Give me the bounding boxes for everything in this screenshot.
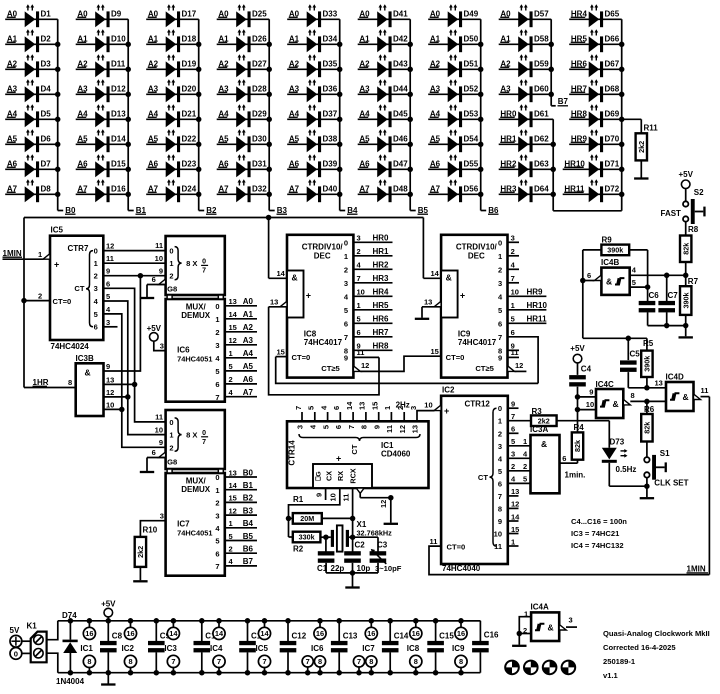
- svg-text:R9: R9: [602, 236, 613, 245]
- svg-text:2k2: 2k2: [538, 416, 550, 425]
- svg-text:&: &: [613, 399, 619, 409]
- svg-text:D51: D51: [464, 60, 479, 69]
- LED D20 with net A3: [146, 79, 199, 102]
- svg-text:B1: B1: [243, 481, 254, 490]
- LED D5 with net A4: [5, 104, 58, 127]
- LED D51 with net A2: [428, 54, 481, 77]
- LED D23 with net A6: [146, 154, 199, 177]
- svg-text:2k2: 2k2: [136, 546, 145, 558]
- svg-text:2: 2: [523, 462, 527, 471]
- svg-text:9: 9: [511, 400, 515, 409]
- LED D34 with net A1: [287, 29, 340, 52]
- svg-text:5: 5: [523, 474, 527, 483]
- svg-text:D56: D56: [464, 185, 479, 194]
- svg-text:D16: D16: [111, 185, 126, 194]
- svg-text:+5V: +5V: [678, 170, 693, 179]
- svg-text:CTRDIV10/: CTRDIV10/: [456, 242, 498, 251]
- svg-text:CT=0: CT=0: [446, 353, 465, 362]
- svg-text:HR7: HR7: [373, 328, 390, 337]
- IC5 out0 wire to IC6 pin11: [103, 250, 165, 252]
- svg-text:B4: B4: [243, 519, 254, 528]
- svg-text:1: 1: [357, 301, 361, 310]
- svg-text:Corrected 16-4-2025: Corrected 16-4-2025: [603, 643, 676, 652]
- LED D16 with net A7: [76, 179, 129, 202]
- cathode bus column 5 (net B5): [407, 19, 428, 215]
- svg-text:D33: D33: [323, 10, 338, 19]
- svg-text:2: 2: [229, 545, 233, 554]
- svg-text:8: 8: [459, 657, 463, 666]
- svg-text:9: 9: [106, 267, 110, 276]
- LED D6 with net A5: [5, 129, 58, 152]
- LED D49 with net A0: [428, 4, 481, 27]
- wire R9 right down to pin5 node: [629, 250, 647, 287]
- registration blob 3: [542, 660, 558, 676]
- svg-text:HR10: HR10: [527, 301, 548, 310]
- svg-text:+: +: [306, 290, 311, 300]
- svg-text:13: 13: [424, 297, 432, 306]
- capacitor C12 100n: [280, 618, 307, 675]
- svg-text:5: 5: [307, 406, 316, 410]
- svg-text:DEC: DEC: [468, 251, 485, 260]
- svg-text:1: 1: [523, 437, 527, 446]
- gate IC4A 74HC132 unused: [517, 603, 577, 645]
- LED D54 with net A5: [428, 129, 481, 152]
- svg-text:+: +: [54, 259, 59, 269]
- svg-text:DEMUX: DEMUX: [181, 311, 211, 320]
- C6/C7 bottom rail to ground node: [648, 323, 689, 329]
- capacitor C15 100n: [427, 618, 454, 675]
- net label 1min: [562, 454, 585, 480]
- svg-text:1MIN: 1MIN: [3, 249, 22, 258]
- svg-text:7: 7: [306, 657, 310, 666]
- svg-text:A6: A6: [243, 375, 254, 384]
- svg-text:2: 2: [511, 462, 515, 471]
- LED D15 with net A6: [76, 154, 129, 177]
- svg-text:15: 15: [229, 323, 237, 332]
- svg-text:2: 2: [169, 272, 173, 281]
- svg-text:16: 16: [367, 629, 375, 638]
- registration blob 4: [561, 660, 577, 676]
- svg-text:D10: D10: [111, 35, 126, 44]
- svg-text:+5V: +5V: [570, 344, 585, 353]
- svg-text:10: 10: [424, 400, 432, 409]
- LED D14 with net A5: [76, 129, 129, 152]
- svg-text:16: 16: [457, 629, 465, 638]
- svg-text:2: 2: [94, 272, 98, 281]
- svg-text:2: 2: [511, 247, 515, 256]
- svg-text:B3: B3: [277, 206, 288, 215]
- LED D45 with net A4: [358, 104, 411, 127]
- svg-text:2k2: 2k2: [637, 141, 646, 153]
- counter IC5 74HC4024: [50, 225, 103, 350]
- svg-text:5: 5: [632, 278, 636, 287]
- svg-text:+5V: +5V: [147, 324, 162, 333]
- ground at IC4A inputs: [512, 645, 526, 647]
- svg-text:8: 8: [631, 391, 635, 400]
- svg-text:74HC4017: 74HC4017: [304, 338, 343, 347]
- svg-text:3: 3: [215, 341, 219, 350]
- svg-text:11: 11: [511, 348, 519, 357]
- svg-text:D28: D28: [252, 85, 267, 94]
- cathode bus column 7 upper half (net B7): [548, 19, 568, 106]
- svg-text:1N4004: 1N4004: [56, 677, 85, 686]
- svg-text:3: 3: [94, 284, 98, 293]
- LED D69 with net HR8: [569, 104, 622, 127]
- svg-text:7: 7: [215, 562, 219, 571]
- svg-text:IC2: IC2: [442, 385, 455, 394]
- LED D37 with net A4: [287, 104, 340, 127]
- resistor R4 82k: [560, 423, 585, 463]
- LED D63 with net HR2: [499, 154, 554, 177]
- counter IC2 74HC4040: [434, 385, 508, 573]
- svg-text:1min.: 1min.: [565, 471, 586, 480]
- oscillator ground rail: [326, 570, 378, 586]
- svg-text:7: 7: [294, 406, 303, 410]
- net label 1MIN at IC5 pin1: [3, 249, 51, 259]
- svg-text:22p: 22p: [331, 564, 345, 573]
- svg-text:1: 1: [511, 537, 515, 546]
- svg-text:0: 0: [202, 259, 206, 266]
- svg-text:RCX: RCX: [349, 468, 358, 483]
- IC9 pin13 to ground: [422, 297, 441, 317]
- resistor R1 20M: [289, 495, 353, 524]
- svg-text:FAST: FAST: [661, 209, 682, 218]
- capacitor C5: [620, 338, 647, 388]
- svg-text:15: 15: [511, 525, 519, 534]
- LED D25 with net A0: [217, 4, 270, 27]
- IC8 pin13 wire to out9: [269, 297, 379, 394]
- svg-text:D23: D23: [182, 160, 197, 169]
- svg-text:D32: D32: [252, 185, 267, 194]
- svg-text:IC4A: IC4A: [531, 603, 549, 612]
- svg-text:D41: D41: [393, 10, 408, 19]
- ground at IC1 pin12: [384, 523, 398, 525]
- svg-text:&: &: [541, 439, 547, 449]
- LED D2 with net A1: [5, 29, 58, 52]
- svg-text:DEMUX: DEMUX: [181, 485, 211, 494]
- svg-text:HR8: HR8: [373, 342, 390, 351]
- svg-text:3: 3: [160, 341, 164, 350]
- IC8 pin14 clock from 1HR line: [269, 218, 287, 279]
- svg-text:IC3: IC3: [164, 644, 177, 653]
- svg-text:CT=0: CT=0: [292, 353, 311, 362]
- svg-text:D44: D44: [393, 85, 408, 94]
- svg-text:74HC4051: 74HC4051: [177, 528, 212, 537]
- svg-text:5: 5: [344, 306, 348, 315]
- IC9 CT>=5 pin12 stub: [515, 361, 527, 371]
- svg-text:CTR12: CTR12: [465, 399, 491, 408]
- svg-text:7: 7: [202, 439, 206, 446]
- svg-text:1: 1: [383, 406, 392, 410]
- svg-text:3: 3: [296, 425, 305, 429]
- svg-text:6: 6: [511, 328, 515, 337]
- LED D18 with net A1: [146, 29, 199, 52]
- LED D42 with net A1: [358, 29, 411, 52]
- svg-text:12: 12: [361, 361, 369, 370]
- svg-text:D43: D43: [393, 60, 408, 69]
- svg-text:5: 5: [215, 537, 219, 546]
- svg-text:8: 8: [498, 504, 502, 513]
- svg-text:5: 5: [106, 292, 110, 301]
- svg-text:6: 6: [511, 425, 515, 434]
- svg-text:14: 14: [345, 401, 354, 410]
- power pins IC2: [122, 618, 137, 675]
- svg-text:C13: C13: [343, 632, 358, 641]
- svg-text:8: 8: [414, 657, 418, 666]
- power pins IC9: [452, 618, 467, 675]
- svg-text:D35: D35: [323, 60, 338, 69]
- svg-text:CTR7: CTR7: [68, 244, 89, 253]
- svg-text:C15: C15: [439, 632, 454, 641]
- LED D43 with net A2: [358, 54, 411, 77]
- 2Hz wire IC1 pin3 to IC2 pin10: [396, 400, 435, 421]
- svg-text:D73: D73: [610, 438, 625, 447]
- svg-text:D1: D1: [41, 10, 52, 19]
- resistor R10 2k2: [135, 526, 158, 581]
- svg-text:IC5: IC5: [256, 644, 269, 653]
- svg-text:6: 6: [106, 279, 110, 288]
- diode D74 1N4004: [56, 611, 85, 686]
- svg-text:13: 13: [270, 297, 278, 306]
- IC9 outputs: [498, 234, 547, 384]
- svg-text:D7: D7: [41, 160, 52, 169]
- svg-text:82k: 82k: [643, 422, 652, 434]
- svg-text:D50: D50: [464, 35, 479, 44]
- ground under C8: [101, 683, 115, 685]
- svg-text:2: 2: [498, 266, 502, 275]
- svg-text:2: 2: [38, 291, 42, 300]
- svg-text:D60: D60: [534, 85, 549, 94]
- IC4B pin5 wire: [630, 278, 651, 290]
- resistor R6 82k: [641, 401, 655, 457]
- cathode bus column 2 (net B2): [196, 19, 217, 215]
- svg-text:v1.1: v1.1: [603, 671, 619, 680]
- svg-text:0: 0: [94, 247, 98, 256]
- svg-text:CTR14: CTR14: [288, 440, 297, 466]
- svg-text:D25: D25: [252, 10, 267, 19]
- svg-text:0: 0: [169, 418, 173, 427]
- LED D57 with net A0: [499, 4, 552, 27]
- svg-text:D67: D67: [605, 60, 620, 69]
- svg-text:IC4B: IC4B: [601, 258, 619, 267]
- svg-text:7: 7: [202, 268, 206, 275]
- svg-text:15: 15: [229, 494, 237, 503]
- svg-text:3: 3: [160, 512, 164, 521]
- capacitor C16 100n at rail end: [436, 621, 499, 673]
- svg-text:2: 2: [344, 266, 348, 275]
- multiplexer IC6 74HC4051: [140, 236, 257, 402]
- LED D21 with net A4: [146, 104, 199, 127]
- counter IC8 74HC4017: [287, 235, 360, 378]
- LED D68 with net HR7: [569, 79, 622, 102]
- counter IC1 CD4060: [287, 421, 429, 488]
- svg-text:HR11: HR11: [527, 315, 548, 324]
- svg-text:C16: C16: [484, 631, 499, 640]
- svg-text:7: 7: [498, 333, 502, 342]
- LED D31 with net A6: [217, 154, 270, 177]
- gate IC3A 74HC21 AND: [523, 425, 578, 493]
- svg-text:16: 16: [126, 629, 134, 638]
- svg-text:IC8: IC8: [407, 644, 420, 653]
- LED D35 with net A2: [287, 54, 340, 77]
- svg-text:8: 8: [68, 378, 72, 387]
- svg-text:D9: D9: [111, 10, 122, 19]
- svg-text:D58: D58: [534, 35, 549, 44]
- svg-text:12: 12: [511, 500, 519, 509]
- LED D10 with net A1: [76, 29, 129, 52]
- svg-text:5V: 5V: [10, 626, 20, 635]
- svg-text:B5: B5: [418, 206, 429, 215]
- svg-text:C14: C14: [394, 632, 409, 641]
- svg-text:5: 5: [511, 437, 515, 446]
- svg-text:7: 7: [511, 412, 515, 421]
- LED D11 with net A2: [76, 54, 129, 77]
- IC9 pin14 clock from 1HR line: [423, 218, 441, 279]
- LED D4 with net A3: [5, 79, 58, 102]
- resistor R2 330k: [289, 532, 329, 554]
- power pins IC4: [210, 618, 225, 675]
- svg-text:14: 14: [215, 629, 224, 638]
- svg-text:14: 14: [169, 629, 178, 638]
- svg-text:IC3 = 74HC21: IC3 = 74HC21: [571, 529, 620, 538]
- svg-text:D71: D71: [605, 160, 620, 169]
- svg-text:12: 12: [106, 242, 114, 251]
- svg-text:3: 3: [344, 279, 348, 288]
- LED D26 with net A1: [217, 29, 270, 52]
- svg-text:D27: D27: [252, 60, 267, 69]
- notes text: [571, 517, 627, 550]
- svg-text:D42: D42: [393, 35, 408, 44]
- wires K1 to supply rails: [47, 621, 58, 673]
- svg-text:C4...C16 = 100n: C4...C16 = 100n: [571, 517, 627, 526]
- svg-text:CT≥5: CT≥5: [475, 364, 494, 373]
- svg-text:15: 15: [277, 347, 285, 356]
- svg-text:D72: D72: [605, 185, 620, 194]
- IC4B pin4 wire: [630, 266, 689, 279]
- LED D24 with net A7: [146, 179, 199, 202]
- capacitor C1 22p: [317, 537, 344, 573]
- IC1 top pins: [294, 401, 420, 455]
- svg-text:D45: D45: [393, 110, 408, 119]
- registration blob 1: [504, 660, 520, 676]
- resistor R7 390k: [680, 275, 699, 336]
- LED D44 with net A3: [358, 79, 411, 102]
- C8 ground reference: [107, 673, 109, 684]
- svg-text:C3: C3: [377, 540, 388, 549]
- ground under R7: [679, 336, 693, 338]
- LED D73 0.5Hz: [602, 438, 650, 489]
- wire to IC4D pin13: [647, 379, 666, 388]
- svg-text:9: 9: [344, 354, 348, 363]
- +5V supply rail: [58, 620, 481, 622]
- svg-text:2: 2: [215, 499, 219, 508]
- svg-text:13: 13: [229, 297, 237, 306]
- svg-text:6: 6: [587, 271, 591, 280]
- LED D52 with net A3: [428, 79, 481, 102]
- 0V bottom rail: [58, 672, 481, 674]
- svg-text:8: 8: [318, 657, 322, 666]
- LED D46 with net A5: [358, 129, 411, 152]
- svg-text:6: 6: [94, 323, 98, 332]
- svg-text:B7: B7: [243, 557, 254, 566]
- svg-text:9: 9: [498, 354, 502, 363]
- svg-text:IC6: IC6: [311, 644, 324, 653]
- svg-text:R4: R4: [574, 423, 585, 432]
- svg-text:1: 1: [229, 349, 233, 358]
- svg-text:10: 10: [155, 425, 163, 434]
- resistor R5 390k: [641, 338, 654, 390]
- svg-text:D37: D37: [323, 110, 338, 119]
- svg-text:IC3B: IC3B: [76, 354, 94, 363]
- svg-text:15: 15: [371, 402, 380, 410]
- svg-text:D14: D14: [111, 135, 126, 144]
- svg-text:6: 6: [215, 380, 219, 389]
- svg-text:D11: D11: [111, 60, 126, 69]
- svg-text:IC4 = 74HC132: IC4 = 74HC132: [571, 541, 624, 550]
- svg-text:HR2: HR2: [373, 261, 390, 270]
- svg-text:82k: 82k: [573, 440, 582, 452]
- svg-text:IC1: IC1: [80, 644, 93, 653]
- svg-text:CT: CT: [74, 284, 84, 293]
- svg-text:D55: D55: [464, 160, 479, 169]
- svg-text:+: +: [336, 454, 341, 464]
- svg-text:6: 6: [562, 454, 566, 463]
- svg-text:13: 13: [511, 487, 519, 496]
- svg-text:7: 7: [215, 393, 219, 402]
- svg-text:A2: A2: [243, 323, 254, 332]
- IC5 out2 wire to IC6 pin9 and IC3B pin9: [103, 273, 165, 371]
- svg-text:D34: D34: [323, 35, 338, 44]
- svg-text:D4: D4: [41, 85, 52, 94]
- +5V supply for S2: [678, 170, 693, 201]
- LED D70 with net HR9: [569, 129, 622, 152]
- svg-text:B6: B6: [243, 545, 254, 554]
- svg-text:5: 5: [229, 362, 233, 371]
- power pins IC7: [353, 618, 377, 675]
- cathode bus column 3 (net B3): [266, 19, 287, 215]
- IC2 output pins: [494, 400, 531, 552]
- svg-text:B0: B0: [65, 206, 76, 215]
- svg-text:CT≥5: CT≥5: [321, 364, 340, 373]
- svg-text:D13: D13: [111, 110, 126, 119]
- svg-text:IC7: IC7: [362, 644, 375, 653]
- LED D60 with net A3: [499, 79, 552, 102]
- svg-text:7: 7: [357, 657, 361, 666]
- svg-text:DEC: DEC: [314, 251, 331, 260]
- cathode bus column 0 (net B0): [55, 19, 76, 215]
- resistor R3 2k2: [508, 407, 610, 448]
- LED D12 with net A3: [76, 79, 129, 102]
- svg-text:G8: G8: [167, 458, 177, 467]
- capacitor C10 100n: [194, 618, 221, 675]
- svg-text:9: 9: [159, 266, 163, 275]
- svg-text:8: 8: [87, 657, 91, 666]
- resistor R9 390k: [601, 236, 629, 256]
- svg-text:10p: 10p: [357, 564, 371, 573]
- svg-text:D62: D62: [534, 135, 549, 144]
- svg-text:5: 5: [357, 315, 361, 324]
- svg-text:10: 10: [586, 400, 594, 409]
- svg-text:9: 9: [498, 517, 502, 526]
- svg-text:10: 10: [511, 288, 519, 297]
- svg-text:CTRDIV10/: CTRDIV10/: [302, 242, 344, 251]
- svg-text:D68: D68: [605, 85, 620, 94]
- IC5 pin2 CT=0 wire: [21, 291, 50, 303]
- svg-text:C6: C6: [649, 291, 660, 300]
- svg-text:5: 5: [94, 310, 98, 319]
- svg-text:R8: R8: [688, 225, 699, 234]
- capacitor C9 100n: [148, 618, 171, 675]
